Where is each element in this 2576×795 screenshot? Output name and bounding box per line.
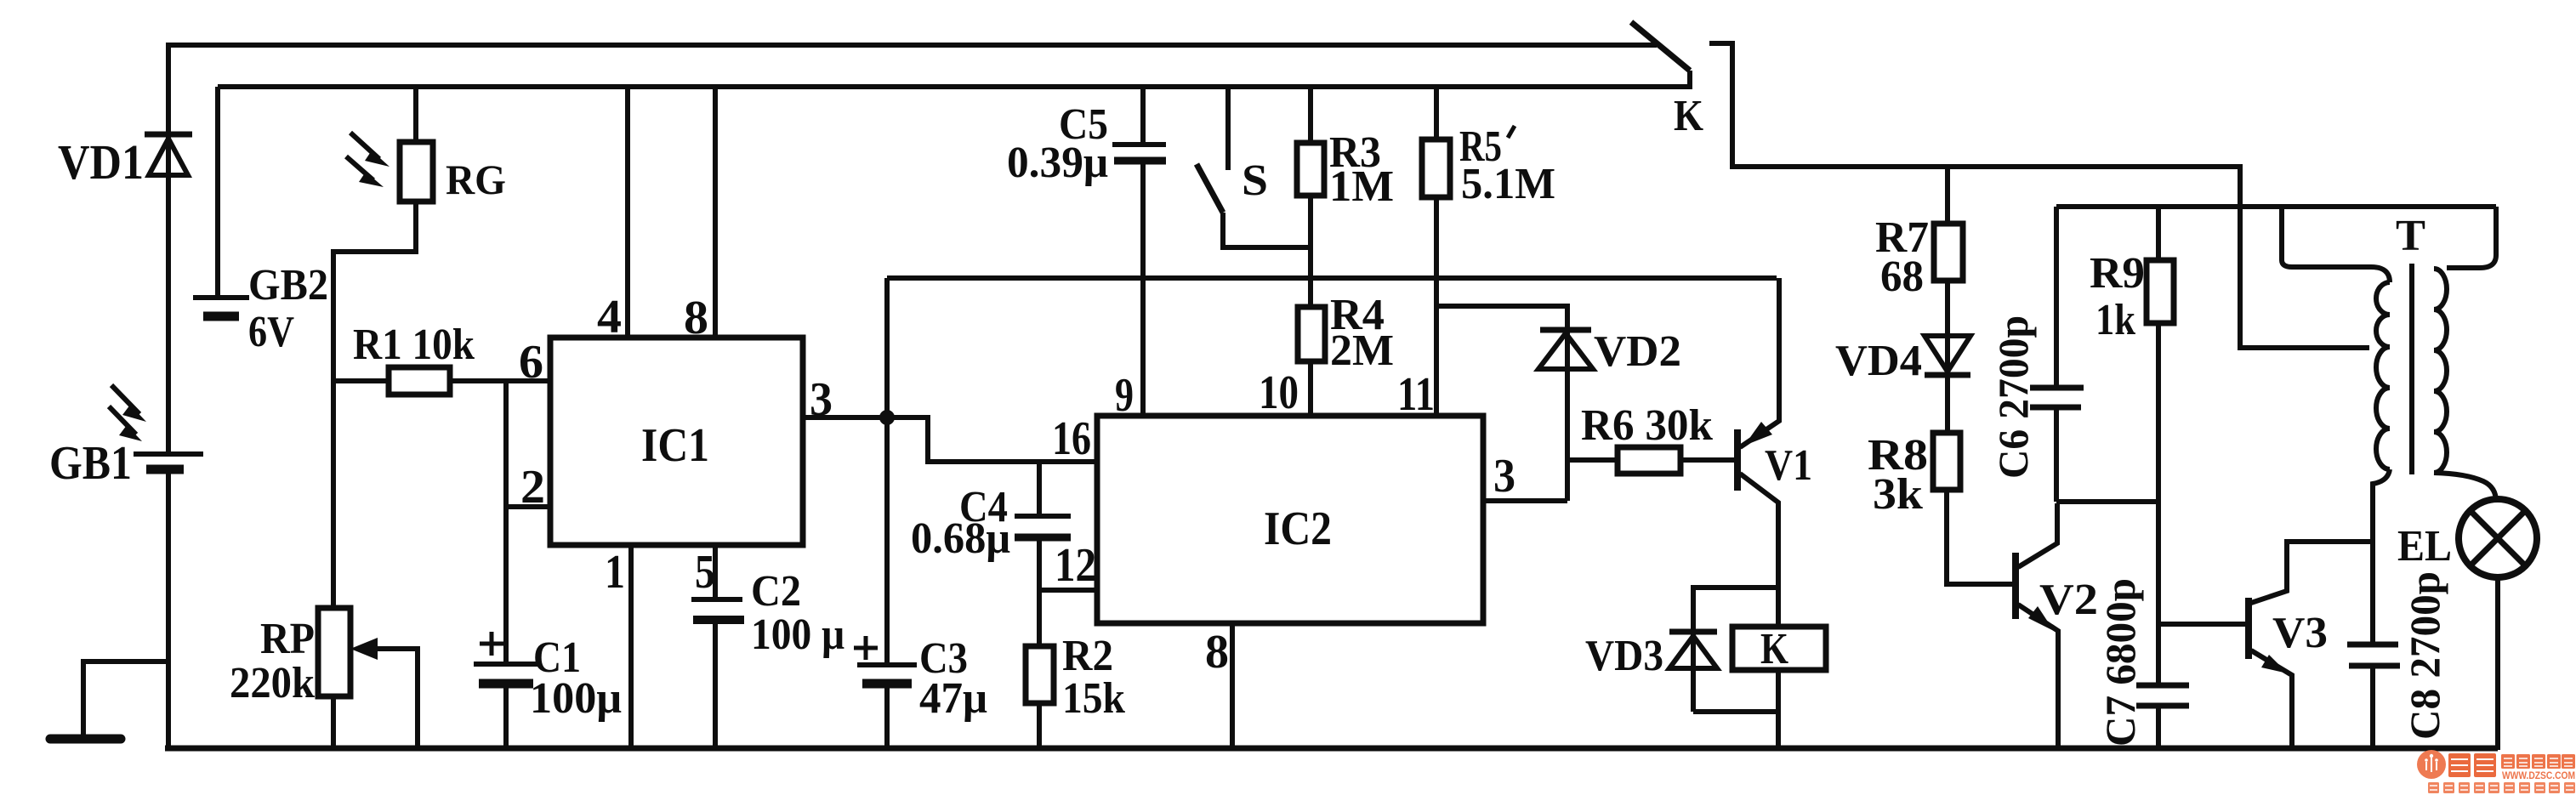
resistor R6 — [1567, 447, 1734, 474]
svg-text:68: 68 — [1880, 253, 1924, 301]
transformer T secondary winding — [2434, 269, 2447, 473]
wire branch pin11 to VD2 — [1436, 306, 1567, 501]
resistor R2 — [1026, 646, 1054, 750]
svg-text:C6 2700p: C6 2700p — [1989, 315, 2037, 479]
wire IC1 pin 4 — [625, 87, 630, 338]
ground — [50, 735, 121, 744]
svg-text:1M: 1M — [1329, 162, 1394, 211]
battery GB1 (photocell) — [134, 454, 203, 469]
wire pin2 stub — [506, 504, 550, 509]
battery GB2 — [193, 298, 249, 316]
wire ground branch — [83, 662, 168, 736]
light arrows GB1 — [109, 385, 146, 441]
wire mid line — [887, 275, 1777, 281]
svg-text:C2: C2 — [751, 567, 801, 616]
capacitor C4 — [1015, 462, 1071, 646]
diode VD2 — [1538, 330, 1593, 369]
svg-text:GB1: GB1 — [49, 437, 132, 490]
label C4 0.68u — [911, 483, 1010, 563]
svg-text:C8 2700p: C8 2700p — [2401, 571, 2448, 740]
svg-text:0.68μ: 0.68μ — [911, 514, 1010, 563]
node junction dot — [879, 410, 895, 425]
label C5 0.39u — [1007, 100, 1108, 187]
svg-text:K: K — [1760, 625, 1788, 673]
wire node vertical to mid line — [884, 278, 890, 417]
capacitor C1 — [474, 632, 538, 750]
svg-text:1k: 1k — [2095, 296, 2135, 344]
transistor V2 — [2016, 503, 2058, 750]
resistor R3 — [1297, 87, 1324, 307]
svg-text:VD1: VD1 — [58, 134, 144, 190]
label R8 3k — [1868, 431, 1928, 519]
svg-text:0.39μ: 0.39μ — [1007, 139, 1108, 187]
svg-text:EL: EL — [2397, 522, 2452, 571]
svg-text:4: 4 — [597, 291, 622, 344]
op-amp IC1 — [550, 338, 803, 545]
resistor R9 — [2147, 207, 2174, 683]
svg-text:12: 12 — [1055, 539, 1096, 592]
svg-text:3k: 3k — [1873, 470, 1923, 519]
wire C6 to V2 collector junction — [2056, 499, 2158, 504]
svg-text:S: S — [1242, 156, 1268, 205]
label R3 1M — [1329, 128, 1394, 211]
svg-text:R2: R2 — [1062, 632, 1113, 680]
transformer T primary top lead — [2282, 207, 2390, 282]
svg-text:R1 10k: R1 10k — [353, 321, 475, 369]
transformer T primary upper winding — [2376, 282, 2390, 347]
switch K blade — [1631, 22, 1690, 88]
svg-text:VD3: VD3 — [1585, 632, 1663, 680]
wire node to IC2 pin16 — [887, 417, 1097, 462]
transformer T secondary bottom lead — [2434, 473, 2496, 502]
svg-text:3: 3 — [810, 373, 833, 426]
svg-text:5.1M: 5.1M — [1461, 160, 1555, 208]
svg-text:V2: V2 — [2039, 576, 2098, 624]
label R4 2M — [1330, 291, 1394, 375]
label R2 15k — [1062, 632, 1125, 723]
wire pin2/C1 vertical — [503, 381, 509, 662]
svg-text:K: K — [1674, 92, 1703, 140]
svg-text:6: 6 — [519, 336, 543, 389]
wire VD3 parallel branch — [1693, 588, 1778, 712]
svg-text:220k: 220k — [230, 659, 315, 707]
capacitor C5 — [1112, 87, 1166, 416]
resistor R8 — [1933, 433, 2012, 584]
transistor V3 — [2249, 542, 2373, 750]
svg-text:8: 8 — [1205, 626, 1229, 679]
wire bottom rail — [165, 746, 2498, 752]
svg-text:15k: 15k — [1062, 674, 1125, 723]
photoresistor RG — [333, 87, 433, 381]
capacitor C3 — [854, 417, 917, 750]
wire IC1 pin 1 — [628, 545, 634, 750]
label RP 220k — [230, 615, 315, 707]
svg-text:T: T — [2396, 212, 2425, 260]
relay coil K — [1732, 625, 1826, 750]
resistor R4 — [1298, 307, 1325, 416]
wire left drop from outer rail — [166, 43, 171, 452]
capacitor C6 — [2030, 207, 2084, 502]
svg-text:2: 2 — [520, 461, 545, 514]
svg-text:10: 10 — [1259, 366, 1299, 419]
capacitor C8 — [2347, 645, 2400, 750]
svg-text:V3: V3 — [2272, 609, 2328, 657]
svg-text:GB2: GB2 — [248, 261, 328, 309]
svg-text:R6 30k: R6 30k — [1581, 401, 1713, 450]
label R7 68 — [1875, 213, 1929, 301]
resistor R1 — [333, 367, 550, 395]
wire IC2 pin 12 stub — [1039, 588, 1097, 593]
resistor R7 — [1934, 167, 1963, 433]
diode VD4 — [1925, 336, 1970, 375]
wire top outer rail — [168, 43, 1657, 48]
svg-text:RG: RG — [446, 156, 506, 203]
label R5 5.1M — [1459, 122, 1555, 208]
transformer T secondary top lead — [2447, 207, 2496, 268]
wire top inner rail — [218, 84, 1692, 89]
transformer T core — [2409, 264, 2414, 474]
wire IC2 pin 3 stub — [1483, 498, 1567, 503]
wire V3 base line — [2158, 622, 2245, 627]
svg-text:VD2: VD2 — [1594, 327, 1681, 376]
resistor R5 — [1422, 87, 1450, 416]
potentiometer RP — [318, 381, 418, 750]
transformer T primary lower winding — [2376, 347, 2390, 469]
diode VD1 — [145, 134, 192, 175]
svg-text:100μ: 100μ — [530, 674, 622, 723]
capacitor C7 — [2136, 685, 2189, 750]
svg-text:5: 5 — [695, 546, 715, 599]
svg-text:1: 1 — [605, 546, 625, 599]
svg-text:RP: RP — [260, 615, 315, 663]
svg-text:IC1: IC1 — [641, 419, 709, 472]
svg-text:WWW.DZSC.COM: WWW.DZSC.COM — [2502, 769, 2575, 781]
light arrows RG — [346, 133, 390, 187]
wire GB2 drop — [215, 87, 220, 296]
transformer T primary bottom lead — [2373, 469, 2390, 643]
diode VD3 — [1669, 632, 1778, 712]
svg-text:6V: 6V — [248, 308, 294, 356]
switch S — [1197, 87, 1311, 247]
svg-text:8: 8 — [684, 292, 708, 344]
lamp EL — [2459, 499, 2537, 750]
wire IC1 pin 8 — [713, 87, 718, 338]
svg-text:100 μ: 100 μ — [751, 610, 844, 659]
svg-text:VD4: VD4 — [1835, 337, 1922, 385]
label C1 100u — [530, 633, 622, 723]
transistor V1 — [1737, 278, 1779, 627]
svg-text:V1: V1 — [1765, 441, 1812, 490]
wire supply line to transformer — [2056, 204, 2496, 209]
svg-text:IC2: IC2 — [1264, 503, 1332, 555]
svg-text:16: 16 — [1052, 412, 1091, 465]
svg-text:3: 3 — [1493, 450, 1515, 503]
wire GB1 to bottom rail — [166, 473, 171, 750]
op-amp IC2 — [1097, 416, 1483, 623]
label C3 47u — [919, 634, 987, 723]
svg-text:2M: 2M — [1330, 327, 1394, 375]
svg-text:47μ: 47μ — [919, 674, 987, 723]
wire IC1 pin 3 stub — [803, 415, 887, 420]
wire IC2 pin 8 — [1230, 623, 1235, 750]
label GB2 6V — [248, 261, 328, 356]
svg-text:R9: R9 — [2090, 249, 2145, 298]
watermark logo — [2417, 750, 2575, 793]
capacitor C2 on pin 5 — [691, 545, 744, 750]
wire K contact to output stage — [1709, 43, 2369, 348]
svg-text:C7 6800p: C7 6800p — [2096, 578, 2144, 747]
label R9 1k — [2090, 249, 2145, 344]
label C2 100u — [751, 567, 844, 659]
